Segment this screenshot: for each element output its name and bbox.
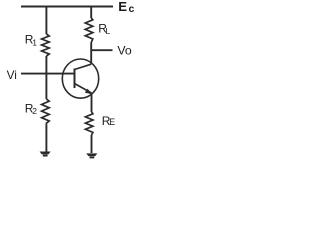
wire RE to ground (91, 135, 93, 153)
svg-text:Vi: Vi (7, 68, 17, 82)
ground left (40, 152, 51, 157)
transistor Q1 collector diagonal (75, 64, 92, 69)
wire Vi node to R2 (45, 74, 47, 99)
label Ec (118, 0, 134, 15)
label R2 (25, 102, 38, 117)
wire rail to RL (90, 7, 92, 19)
resistor R2 (42, 99, 50, 125)
wire top supply rail (21, 6, 113, 8)
wire emitter to RE (91, 93, 93, 112)
resistor RE (85, 112, 93, 135)
label RE (102, 114, 115, 128)
svg-text:2: 2 (32, 106, 37, 116)
ground right (86, 153, 97, 158)
transistor Q1 circle (62, 59, 98, 98)
svg-text:E: E (118, 0, 127, 14)
resistor R1 (42, 34, 50, 56)
wire Vo tap (91, 49, 112, 51)
svg-text:c: c (129, 3, 135, 15)
transistor Q1 emitter diagonal (75, 84, 92, 94)
wire rail to R1 (45, 7, 47, 35)
svg-text:L: L (106, 26, 111, 36)
transistor Q1 emitter arrowhead (85, 89, 92, 95)
wire RL to collector node (90, 43, 92, 65)
resistor RL (85, 18, 93, 43)
svg-text:1: 1 (32, 38, 37, 48)
svg-text:E: E (109, 117, 115, 127)
transistor Q1 base bar (74, 69, 76, 89)
label R1 (25, 33, 38, 48)
wire R2 to ground (45, 125, 47, 152)
svg-text:Vo: Vo (117, 44, 132, 58)
label RL (98, 22, 110, 37)
wire Vi input (21, 73, 75, 75)
wire R1 to Vi node (45, 56, 47, 74)
